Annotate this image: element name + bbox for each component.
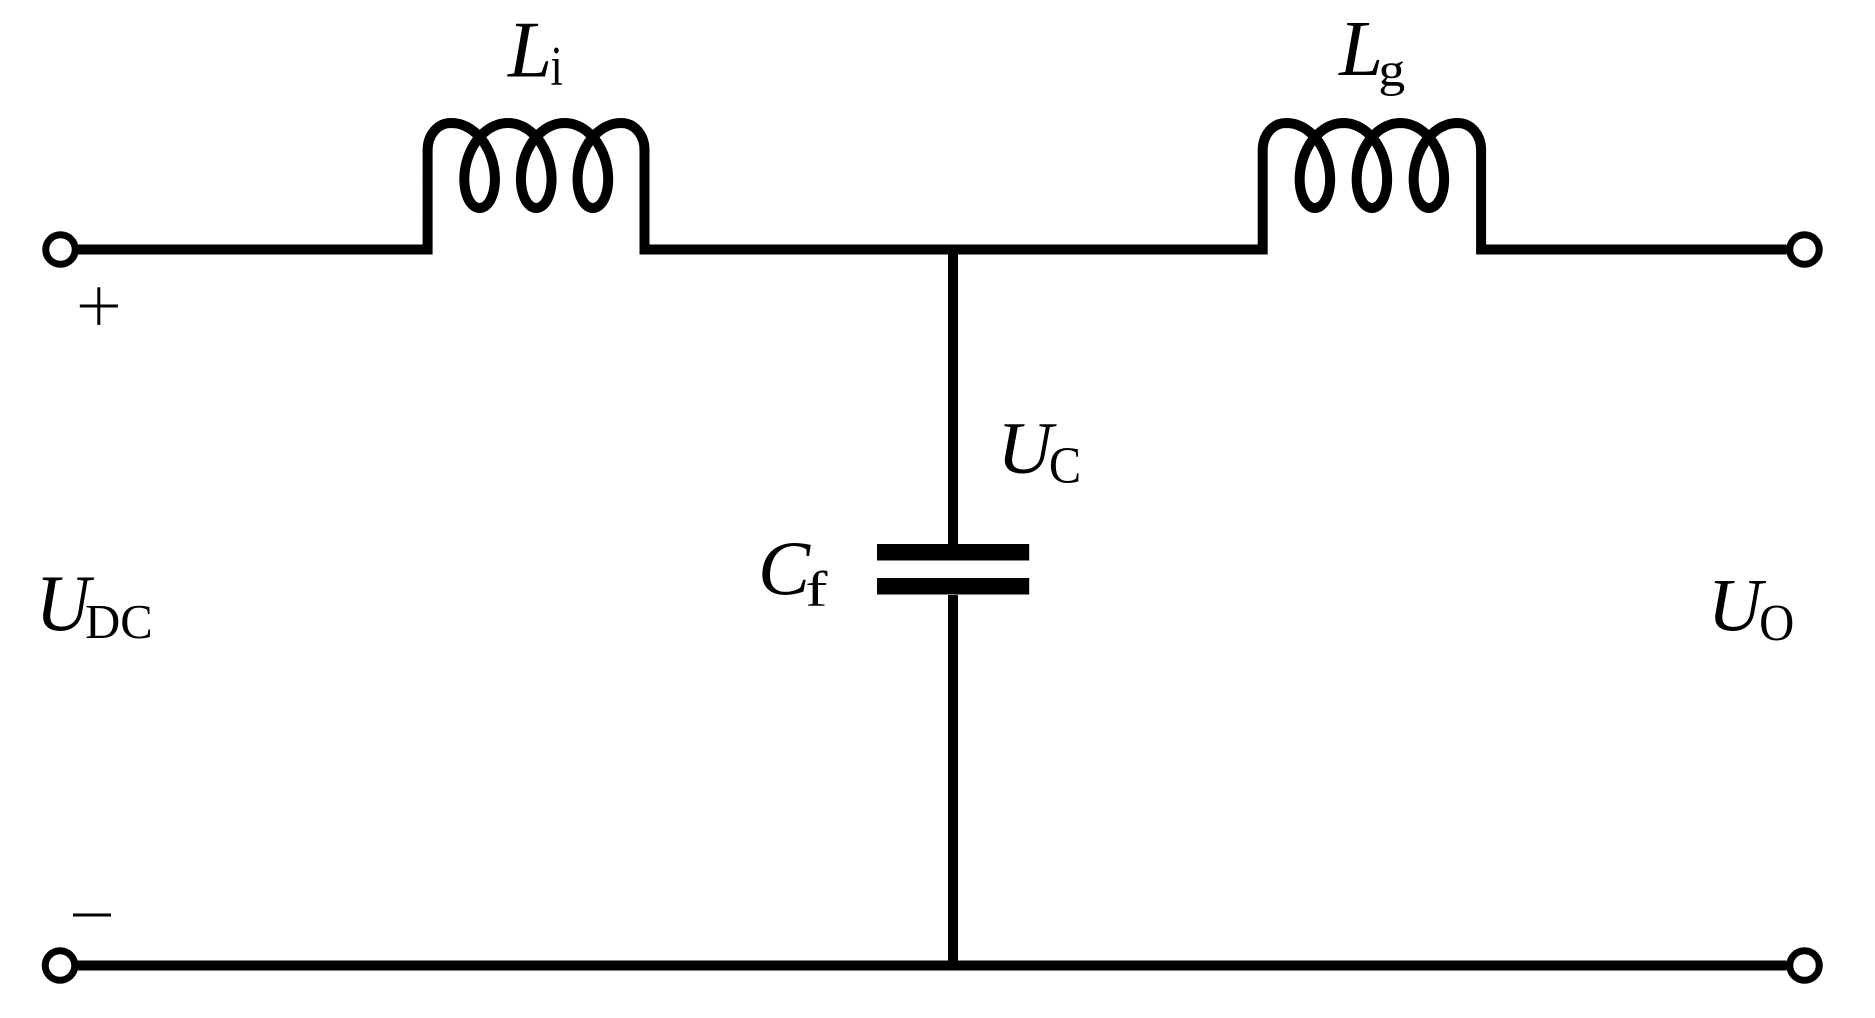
svg-text:L: L — [1338, 6, 1383, 93]
svg-text:C: C — [1049, 436, 1081, 494]
svg-text:U: U — [997, 408, 1057, 490]
svg-text:U: U — [1708, 565, 1767, 648]
svg-text:L: L — [507, 6, 552, 94]
svg-text:DC: DC — [85, 596, 153, 649]
svg-text:g: g — [1378, 44, 1405, 96]
svg-text:O: O — [1759, 594, 1794, 651]
svg-text:C: C — [758, 526, 811, 612]
svg-text:f: f — [805, 562, 828, 617]
svg-text:i: i — [551, 35, 563, 97]
